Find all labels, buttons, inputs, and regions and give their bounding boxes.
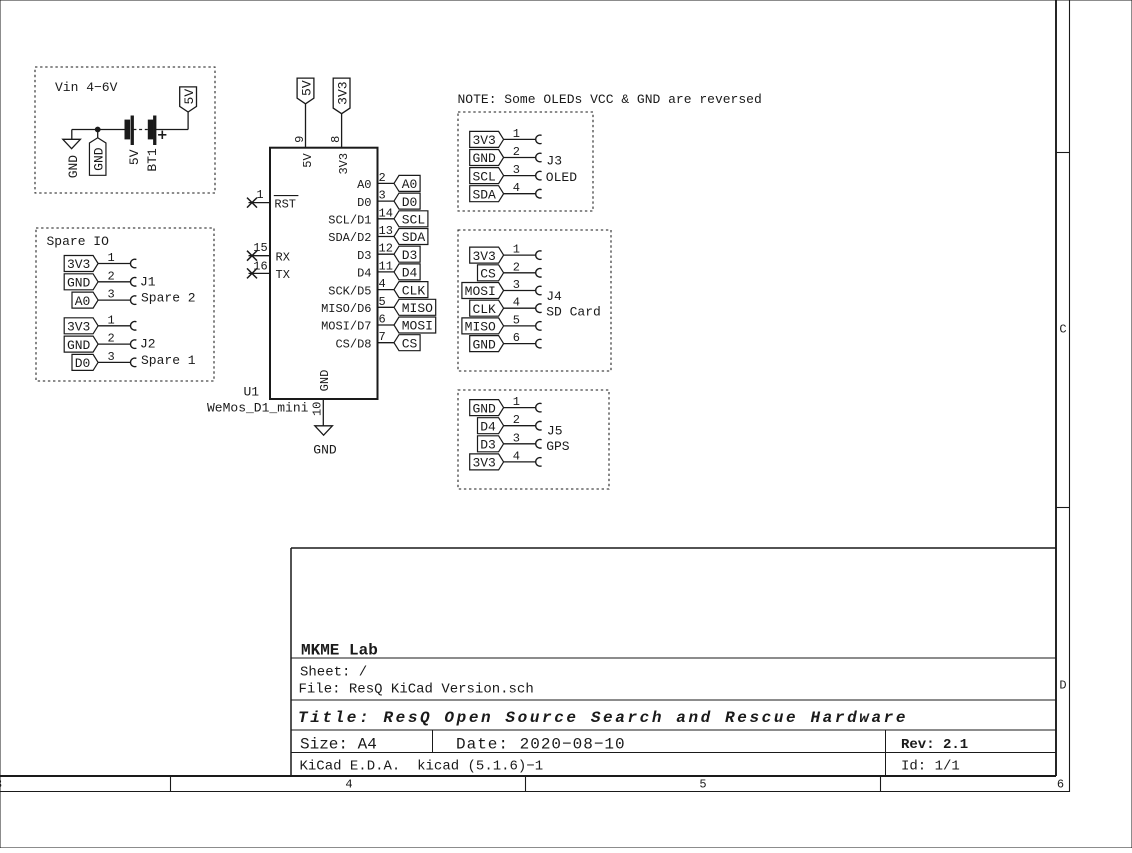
svg-text:A0: A0: [402, 177, 418, 192]
wire net GND to pin 2: [98, 277, 136, 286]
wire net D4 to pin 2: [504, 421, 542, 430]
wire net GND to pin 2: [504, 153, 542, 162]
svg-text:3: 3: [107, 288, 114, 302]
wire net CLK to pin 4: [504, 304, 542, 313]
net flag GND: [470, 336, 504, 353]
svg-text:3: 3: [379, 189, 386, 203]
net flag 3V3: [470, 131, 504, 148]
svg-text:13: 13: [379, 224, 393, 238]
svg-text:2: 2: [107, 269, 114, 283]
net flag A0: [72, 292, 98, 309]
svg-text:A0: A0: [75, 294, 91, 309]
svg-text:4: 4: [513, 449, 520, 463]
pin 5 MISO/D6 stub: [378, 306, 395, 308]
svg-text:5: 5: [699, 778, 706, 792]
wire net MISO to pin 5: [504, 322, 542, 331]
svg-text:6: 6: [1057, 778, 1064, 792]
net flag 3V3: [64, 318, 98, 335]
net flag D0: [394, 193, 420, 210]
net flag SDA: [470, 186, 504, 203]
svg-text:D0: D0: [75, 356, 91, 371]
net flag MISO: [394, 299, 436, 316]
svg-text:MOSI/D7: MOSI/D7: [321, 320, 371, 334]
svg-text:Sheet: /: Sheet: /: [300, 665, 367, 681]
svg-text:1: 1: [256, 188, 263, 202]
svg-text:U1: U1: [244, 385, 260, 400]
svg-text:3: 3: [513, 163, 520, 177]
svg-text:9: 9: [293, 136, 307, 143]
svg-text:A0: A0: [357, 178, 371, 192]
ground symbol below U1: [313, 426, 337, 458]
wire net GND to pin 6: [504, 339, 542, 348]
svg-text:2: 2: [379, 171, 386, 185]
svg-text:Spare 2: Spare 2: [141, 291, 196, 306]
svg-text:NOTE: Some OLEDs VCC & GND are: NOTE: Some OLEDs VCC & GND are reversed: [458, 92, 762, 107]
net flag SCL: [470, 168, 504, 185]
svg-text:MOSI: MOSI: [465, 284, 496, 299]
frame tick bottom x170: [170, 776, 172, 792]
svg-text:MISO: MISO: [465, 320, 496, 335]
wire net D3 to pin 3: [504, 440, 542, 449]
svg-text:5V: 5V: [301, 153, 315, 168]
wire net 3V3 to pin 1: [504, 251, 542, 260]
svg-text:GND: GND: [313, 443, 337, 458]
pin 4 SCK/D5 stub: [378, 289, 395, 291]
svg-text:C: C: [1059, 323, 1066, 337]
svg-text:RST: RST: [274, 197, 296, 211]
wire battery to 5V flag: [156, 112, 188, 129]
net flag D4: [394, 264, 420, 281]
svg-text:1: 1: [107, 313, 114, 327]
svg-text:CS: CS: [480, 267, 496, 282]
svg-text:J4: J4: [546, 289, 562, 304]
svg-text:GND: GND: [67, 338, 91, 353]
net flag GND: [470, 150, 504, 167]
net flag MOSI: [462, 283, 504, 300]
svg-text:3V3: 3V3: [472, 249, 495, 264]
net flag GND: [64, 274, 98, 291]
pin 6 MOSI/D7 stub: [378, 324, 395, 326]
svg-text:14: 14: [379, 206, 393, 220]
svg-text:MKME Lab: MKME Lab: [301, 642, 378, 660]
frame tick right y507: [1056, 507, 1070, 509]
no-connect X pin 16: [247, 268, 257, 278]
svg-text:5V: 5V: [127, 149, 142, 165]
Vin section dashed box: [35, 67, 215, 193]
svg-text:8: 8: [329, 136, 343, 143]
svg-text:1: 1: [513, 243, 520, 257]
svg-text:J1: J1: [140, 275, 156, 290]
svg-text:6: 6: [513, 331, 520, 345]
svg-text:3: 3: [107, 350, 114, 364]
GND net flag below junction: [89, 130, 106, 176]
junction dot: [95, 127, 101, 133]
svg-text:CS/D8: CS/D8: [335, 337, 371, 351]
svg-text:5V: 5V: [300, 80, 315, 96]
svg-text:2: 2: [107, 332, 114, 346]
svg-text:WeMos_D1_mini: WeMos_D1_mini: [207, 401, 309, 416]
svg-text:D4: D4: [402, 266, 418, 281]
svg-text:1: 1: [513, 127, 520, 141]
power flag 3V3 (U1 pin 8): [333, 78, 350, 114]
svg-text:5V: 5V: [182, 89, 197, 105]
power flag 5V (battery): [180, 87, 197, 112]
svg-text:D3: D3: [480, 438, 496, 453]
svg-text:SDA: SDA: [472, 187, 496, 202]
net flag MOSI: [394, 317, 436, 334]
svg-text:15: 15: [253, 241, 267, 255]
svg-text:3: 3: [513, 431, 520, 445]
svg-text:CS: CS: [402, 336, 418, 351]
svg-text:D0: D0: [357, 196, 371, 210]
pin 13 SDA/D2 stub: [378, 236, 395, 238]
svg-text:10: 10: [310, 402, 324, 416]
svg-text:SDA/D2: SDA/D2: [328, 231, 371, 245]
wire pin 10 to ground: [322, 399, 324, 426]
pin name RST with overline: [274, 196, 299, 212]
svg-text:SCK/D5: SCK/D5: [328, 284, 371, 298]
wire net MOSI to pin 3: [504, 286, 542, 295]
svg-text:BT1: BT1: [145, 148, 160, 172]
wire net D0 to pin 3: [98, 358, 136, 367]
net flag D3: [478, 436, 504, 453]
svg-text:1: 1: [513, 395, 520, 409]
net flag 3V3: [64, 256, 98, 273]
svg-text:File: ResQ KiCad Version.sch: File: ResQ KiCad Version.sch: [299, 682, 534, 698]
J3 dashed box: [458, 112, 593, 211]
power flag 5V (U1 pin 9): [297, 78, 314, 104]
pin 16 TX stub: [249, 272, 271, 274]
net flag CLK: [394, 282, 428, 299]
wire net 3V3 to pin 1: [98, 321, 136, 330]
svg-text:KiCad E.D.A. kicad (5.1.6)−1: KiCad E.D.A. kicad (5.1.6)−1: [300, 759, 544, 775]
svg-text:MISO: MISO: [402, 301, 433, 316]
svg-text:4: 4: [513, 181, 520, 195]
wire net 3V3 to pin 1: [504, 135, 542, 144]
net flag D3: [394, 246, 420, 263]
svg-text:7: 7: [379, 330, 386, 344]
wire net 3V3 to pin 1: [98, 259, 136, 268]
svg-text:J3: J3: [546, 154, 562, 169]
net flag 3V3: [470, 454, 504, 471]
battery BT1: [125, 116, 166, 145]
svg-text:3V3: 3V3: [336, 81, 351, 104]
pin 12 D3 stub: [378, 253, 395, 255]
op U1 body: [270, 148, 378, 399]
svg-text:GND: GND: [472, 337, 496, 352]
svg-text:11: 11: [379, 259, 393, 273]
svg-text:Id: 1/1: Id: 1/1: [901, 759, 960, 775]
wire net CS to pin 2: [504, 269, 542, 278]
no-connect X pin 1: [247, 198, 257, 208]
svg-text:3V3: 3V3: [337, 153, 351, 175]
svg-text:3V3: 3V3: [472, 133, 495, 148]
svg-text:2: 2: [513, 413, 520, 427]
svg-text:GND: GND: [472, 401, 496, 416]
net flag CS: [478, 265, 504, 282]
svg-text:SCL: SCL: [402, 213, 425, 228]
net flag SCL: [394, 211, 428, 228]
wire net 3V3 to pin 4: [504, 458, 542, 467]
wire net SCL to pin 3: [504, 171, 542, 180]
title block outline: [291, 548, 1056, 776]
svg-text:Spare 1: Spare 1: [141, 353, 196, 368]
svg-text:D0: D0: [402, 195, 418, 210]
pin 11 D4 stub: [378, 271, 395, 273]
net flag A0: [394, 175, 420, 192]
svg-text:CLK: CLK: [472, 302, 496, 317]
svg-text:Vin 4−6V: Vin 4−6V: [55, 80, 118, 95]
svg-text:CLK: CLK: [402, 283, 426, 298]
svg-text:J5: J5: [547, 424, 563, 439]
pin 3 D0 stub: [378, 200, 395, 202]
wire GND-arrow corner to junction: [72, 130, 125, 140]
net flag GND: [470, 400, 504, 417]
svg-text:GND: GND: [472, 151, 496, 166]
svg-text:GND: GND: [92, 147, 107, 171]
pin 15 RX stub: [249, 255, 271, 257]
svg-text:SDA: SDA: [402, 230, 426, 245]
frame tick bottom x880: [880, 776, 882, 792]
wire 3V3 flag to pin 8: [341, 114, 343, 148]
svg-text:4: 4: [513, 296, 520, 310]
net flag GND: [64, 336, 98, 353]
svg-text:OLED: OLED: [546, 170, 577, 185]
title block row lines: [291, 658, 1056, 776]
svg-text:RX: RX: [276, 250, 290, 264]
svg-text:D4: D4: [480, 419, 496, 434]
svg-text:GPS: GPS: [546, 439, 570, 454]
frame tick right y152: [1056, 152, 1070, 154]
pin 7 CS/D8 stub: [378, 342, 395, 344]
svg-text:D: D: [1059, 679, 1066, 693]
svg-text:Title: ResQ Open Source Search: Title: ResQ Open Source Search and Rescu…: [298, 709, 908, 727]
pin 2 A0 stub: [378, 182, 395, 184]
wire net A0 to pin 3: [98, 296, 136, 305]
net flag CLK: [470, 300, 504, 317]
net flag D4: [478, 418, 504, 435]
svg-text:4: 4: [345, 778, 352, 792]
svg-text:D4: D4: [357, 267, 371, 281]
svg-text:16: 16: [253, 259, 267, 273]
Spare IO dashed box: [36, 228, 214, 381]
J4 dashed box: [458, 230, 611, 371]
svg-text:3: 3: [0, 778, 2, 792]
svg-text:J2: J2: [140, 337, 156, 352]
svg-text:Rev: 2.1: Rev: 2.1: [901, 737, 968, 753]
svg-text:Date: 2020−08−10: Date: 2020−08−10: [456, 736, 626, 754]
net flag 3V3: [470, 247, 504, 264]
pin 1 RST stub: [249, 202, 271, 204]
wire net SDA to pin 4: [504, 189, 542, 198]
svg-text:3V3: 3V3: [67, 257, 90, 272]
net flag CS: [394, 335, 420, 352]
frame tick bottom x525: [525, 776, 527, 792]
svg-text:Spare IO: Spare IO: [47, 234, 110, 249]
svg-text:GND: GND: [66, 155, 81, 179]
svg-text:2: 2: [513, 145, 520, 159]
svg-text:D3: D3: [402, 248, 418, 263]
svg-text:3V3: 3V3: [67, 320, 90, 335]
svg-text:5: 5: [379, 295, 386, 309]
svg-text:MISO/D6: MISO/D6: [321, 302, 371, 316]
svg-text:TX: TX: [276, 268, 290, 282]
svg-text:5: 5: [513, 313, 520, 327]
svg-text:1: 1: [107, 251, 114, 265]
wire 5V flag to pin 9: [305, 104, 307, 148]
svg-text:4: 4: [379, 277, 386, 291]
no-connect X pin 15: [247, 251, 257, 261]
pin 14 SCL/D1 stub: [378, 218, 395, 220]
svg-text:SCL: SCL: [472, 169, 495, 184]
svg-text:3: 3: [513, 278, 520, 292]
net flag D0: [72, 354, 98, 371]
net flag MISO: [462, 318, 504, 335]
wire net GND to pin 1: [504, 403, 542, 412]
svg-text:2: 2: [513, 260, 520, 274]
svg-text:D3: D3: [357, 249, 371, 263]
net flag SDA: [394, 229, 428, 246]
svg-text:SCL/D1: SCL/D1: [328, 214, 371, 228]
J5 dashed box: [458, 390, 609, 489]
svg-text:GND: GND: [318, 370, 332, 392]
svg-text:Size: A4: Size: A4: [300, 736, 377, 754]
svg-text:12: 12: [379, 242, 393, 256]
svg-text:3V3: 3V3: [472, 456, 495, 471]
svg-text:GND: GND: [67, 276, 91, 291]
svg-text:SD Card: SD Card: [546, 305, 601, 320]
ground symbol left of battery: [63, 139, 81, 178]
svg-text:MOSI: MOSI: [402, 319, 433, 334]
svg-text:6: 6: [379, 313, 386, 327]
wire net GND to pin 2: [98, 340, 136, 349]
